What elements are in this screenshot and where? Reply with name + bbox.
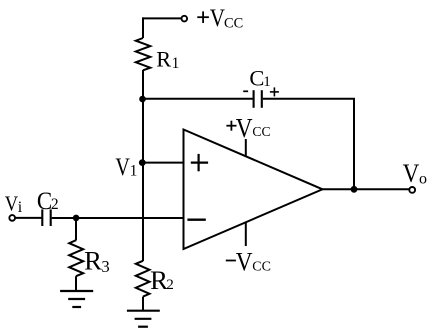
label +Vcc (op-amp positive supply) [226, 112, 270, 143]
svg-text:3: 3 [101, 257, 109, 276]
label R1 [156, 47, 179, 72]
resistor R2 [136, 261, 150, 297]
wire: +Vcc terminal branch down to R1 [142, 17, 144, 38]
node B (junction of C2 wire and R3) [73, 215, 80, 222]
wire: -Vcc supply stub from op-amp bottom edge [245, 222, 247, 246]
node C (output / feedback junction) [351, 186, 358, 193]
ground (below R2) [127, 311, 160, 327]
capacitor C1 [254, 90, 262, 108]
label C1 minus polarity [243, 90, 248, 92]
label C1 [249, 66, 270, 91]
op-amp + input symbol [191, 154, 208, 171]
svg-text:V: V [403, 158, 420, 188]
svg-text:R: R [84, 245, 102, 275]
svg-text:2: 2 [166, 276, 174, 293]
label Vi [5, 191, 23, 216]
svg-text:CC: CC [252, 260, 271, 275]
resistor R1 [136, 38, 151, 70]
label -Vcc (op-amp negative supply) [226, 247, 271, 277]
op-amp U1 (triangle body) [184, 130, 323, 250]
svg-text:V: V [236, 112, 253, 143]
wire: R1 to node A [142, 70, 144, 99]
wire: C1 to output node (top and right segments) [263, 99, 354, 190]
svg-text:2: 2 [51, 196, 59, 213]
svg-text:1: 1 [130, 163, 138, 180]
wire: R3 to ground [75, 276, 77, 291]
terminal +Vcc (open circle) [182, 16, 188, 22]
svg-text:1: 1 [263, 74, 271, 90]
wire: node A down to node V1 [142, 99, 144, 163]
wire: top supply lead to +Vcc terminal [142, 17, 181, 19]
wire: R2 to ground [142, 297, 144, 311]
label Vo [403, 158, 427, 188]
label +Vcc (top supply) [197, 3, 243, 32]
label C2 [37, 186, 59, 215]
label V1 [115, 154, 137, 181]
svg-text:CC: CC [224, 16, 243, 32]
svg-text:V: V [5, 191, 18, 215]
node A (junction of R1, C1 and V1 bus) [139, 96, 146, 103]
svg-text:CC: CC [252, 124, 270, 139]
wire: Vi terminal to C2 [15, 217, 41, 219]
svg-text:i: i [18, 199, 23, 216]
terminal Vo (open circle) [409, 187, 415, 193]
label C1 plus polarity [270, 87, 279, 96]
node V1 (junction at op-amp + input) [139, 159, 146, 166]
label R3 [84, 245, 110, 275]
label R2 [150, 265, 174, 295]
op-amp - input symbol [187, 218, 205, 220]
svg-text:R: R [156, 47, 171, 72]
resistor R3 [69, 240, 83, 276]
svg-text:1: 1 [172, 55, 180, 72]
wire: C2 to op-amp - input (through node B, crossing V1 bus) [52, 217, 184, 219]
svg-text:C: C [37, 186, 52, 215]
capacitor C2 [42, 209, 50, 226]
terminal Vi (open circle) [9, 215, 15, 221]
wire: node A to C1 [143, 98, 253, 100]
wire: node B down to R3 [75, 218, 77, 241]
svg-text:C: C [249, 66, 264, 91]
svg-text:V: V [115, 154, 129, 181]
wire: op-amp output to Vo terminal [323, 188, 410, 190]
wire: node V1 down to R2 (crosses - input wire, no connection) [142, 163, 144, 261]
wire: +Vcc supply stub into op-amp top edge [245, 139, 247, 157]
svg-text:V: V [236, 247, 253, 277]
svg-text:o: o [419, 171, 427, 188]
wire: node V1 to op-amp + input [142, 162, 183, 164]
ground (below R3) [60, 291, 93, 307]
